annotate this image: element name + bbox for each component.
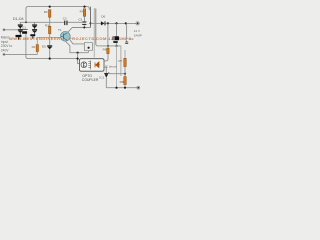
resistor R8: [124, 77, 126, 85]
wire secondary output: [91, 22, 101, 24]
node R6 top: [107, 45, 109, 47]
wire R2 stub: [49, 17, 51, 22]
wire mains live: [5, 29, 18, 31]
wire mains neutral: [5, 53, 37, 55]
wire bridge top rail: [20, 22, 34, 24]
terminal +12V: [136, 22, 140, 26]
node D5 rail: [49, 58, 51, 60]
wire R4 stub: [84, 16, 86, 21]
capacitor C1 plate top: [23, 28, 28, 31]
node gnd C4: [115, 87, 117, 89]
wire ground rail: [106, 87, 136, 89]
node aux polarity dot: [88, 47, 90, 49]
node emitter rail: [77, 52, 79, 54]
svg-text:Input: Input: [1, 40, 8, 44]
resistor R4: [83, 9, 85, 16]
node top R4 junction: [83, 6, 85, 8]
svg-text:IC shunt: IC shunt: [105, 65, 117, 69]
bridge lower bar right: [30, 34, 35, 36]
opto divider: [90, 61, 92, 70]
wire R6 branch: [107, 23, 109, 48]
node out 1: [107, 22, 109, 24]
svg-text:12 V: 12 V: [134, 29, 140, 33]
node top R2 junction: [49, 6, 51, 8]
mains terminal L: [3, 29, 5, 31]
opto LED: [95, 62, 100, 68]
svg-text:COUPLER: COUPLER: [82, 78, 99, 82]
svg-text:T1: T1: [58, 28, 62, 32]
wire emitter path: [65, 41, 88, 53]
node gnd R8: [124, 87, 126, 89]
resistor R1: [36, 37, 38, 44]
svg-text:R8: R8: [120, 80, 124, 84]
node opto rail: [77, 58, 79, 60]
capacitor C4 electrolytic: [116, 23, 118, 36]
capacitor C5 small: [126, 23, 128, 41]
node bridge top: [25, 21, 27, 23]
wire bus to C2: [35, 21, 65, 23]
resistor R6: [107, 48, 109, 54]
wire opto to TL431: [104, 67, 106, 73]
resistor R7: [124, 50, 126, 58]
svg-text:IC1: IC1: [99, 75, 104, 79]
opto phototransistor: [81, 62, 87, 68]
svg-text:C2: C2: [63, 17, 67, 21]
wire top rail: [26, 7, 89, 23]
resistor R2: [49, 10, 51, 18]
capacitor C1 body: [22, 31, 27, 34]
transformer X1: [90, 7, 92, 28]
svg-text:5AMP: 5AMP: [134, 33, 142, 37]
node C4 mid: [116, 45, 118, 47]
diode D5: [47, 45, 52, 49]
svg-text:D5: D5: [42, 45, 46, 49]
svg-text:240V: 240V: [1, 48, 10, 52]
svg-text:R1: R1: [32, 45, 36, 49]
svg-text:R4: R4: [80, 10, 84, 14]
svg-text:C3: C3: [78, 18, 82, 22]
svg-text:R3: R3: [45, 24, 49, 28]
wire D5 to gnd rail: [49, 49, 51, 58]
wire collector rail: [68, 28, 91, 33]
aux winding box: [84, 42, 92, 50]
opto coupler U1 box: [80, 59, 105, 71]
bridge lower bar left: [16, 35, 22, 37]
svg-text:D6: D6: [101, 15, 105, 19]
node out 3: [125, 22, 127, 24]
diode D1: [18, 24, 23, 29]
svg-text:D1–D4: D1–D4: [13, 17, 24, 21]
wire aux winding link: [70, 40, 85, 44]
svg-text:C4: C4: [130, 37, 134, 41]
node C3 tap: [83, 27, 85, 29]
diode D3: [32, 24, 37, 29]
wire feedback drop: [120, 46, 122, 76]
wire feedback tap: [110, 73, 125, 75]
svg-text:R7: R7: [118, 59, 122, 63]
wire base link: [37, 36, 61, 38]
node out 2: [115, 22, 117, 24]
terminal 0V: [137, 86, 140, 89]
wire secondary lower: [96, 44, 121, 46]
mains terminal N: [3, 53, 5, 55]
svg-text:R2: R2: [44, 10, 48, 14]
svg-text:Mains: Mains: [1, 35, 10, 39]
wire opto pin1: [78, 53, 80, 64]
resistor R3: [49, 22, 51, 26]
wire R3 to D5: [49, 34, 51, 46]
diode D2: [18, 29, 23, 35]
wire neutral riser: [26, 34, 78, 59]
svg-text:R6: R6: [103, 47, 107, 51]
svg-text:C1: C1: [22, 25, 26, 29]
diode D4: [32, 29, 37, 34]
node divider mid: [124, 73, 126, 75]
